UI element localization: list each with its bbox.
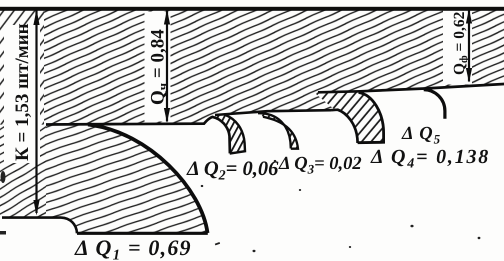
bottom-left line (2, 216, 61, 219)
crescent delta-Q3 (258, 113, 298, 149)
hatched wedge and crescent delta-Q4 (314, 92, 384, 143)
Qch dimension arrow (164, 10, 170, 123)
svg-text:Δ Q3= 0,02: Δ Q3= 0,02 (278, 154, 362, 177)
svg-text:Δ Q2= 0,06: Δ Q2= 0,06 (186, 158, 279, 184)
Qf dimension arrow (466, 9, 472, 83)
hatched region delta-Q1 (0, 125, 208, 234)
crescent delta-Q2 (210, 114, 245, 153)
staircase boundary L4 (318, 84, 504, 92)
white strip for Qf label (443, 11, 472, 85)
staircase boundary L2-L3 (215, 110, 331, 115)
top border line (0, 7, 504, 11)
Q1 left fillet (61, 218, 77, 234)
left column hatch lower (0, 125, 46, 218)
svg-text:Δ Q1 = 0,69: Δ Q1 = 0,69 (74, 235, 192, 261)
staircase boundary L1 with rise and Q2 inner curl (46, 117, 230, 153)
svg-text:Qч = 0,84: Qч = 0,84 (148, 29, 171, 105)
Q1 big arc (88, 125, 208, 234)
Q3 inner curl (258, 113, 291, 148)
svg-text:Δ Q4= 0,138: Δ Q4= 0,138 (370, 146, 490, 172)
svg-text:Δ Q5: Δ Q5 (401, 124, 441, 147)
svg-text:Qф = 0,62: Qф = 0,62 (451, 11, 470, 75)
Q3 outer arc and bottom (263, 117, 298, 149)
Q2 crescent outer arc (225, 115, 246, 154)
Q4 inner curl (331, 110, 358, 143)
white strip for Qch label (145, 12, 171, 122)
scan specks (0, 160, 480, 252)
left column hatch upper (steeper) (0, 10, 44, 125)
hatched top band (0, 8, 504, 125)
white strip for K label (4, 25, 40, 163)
Q1 bottom line (77, 232, 208, 235)
curve delta-Q5 (424, 90, 445, 119)
svg-text:К = 1,53 шт/мин: К = 1,53 шт/мин (12, 23, 33, 161)
Q4 outer arc and bottom (358, 93, 384, 143)
K dimension arrow (33, 10, 39, 216)
